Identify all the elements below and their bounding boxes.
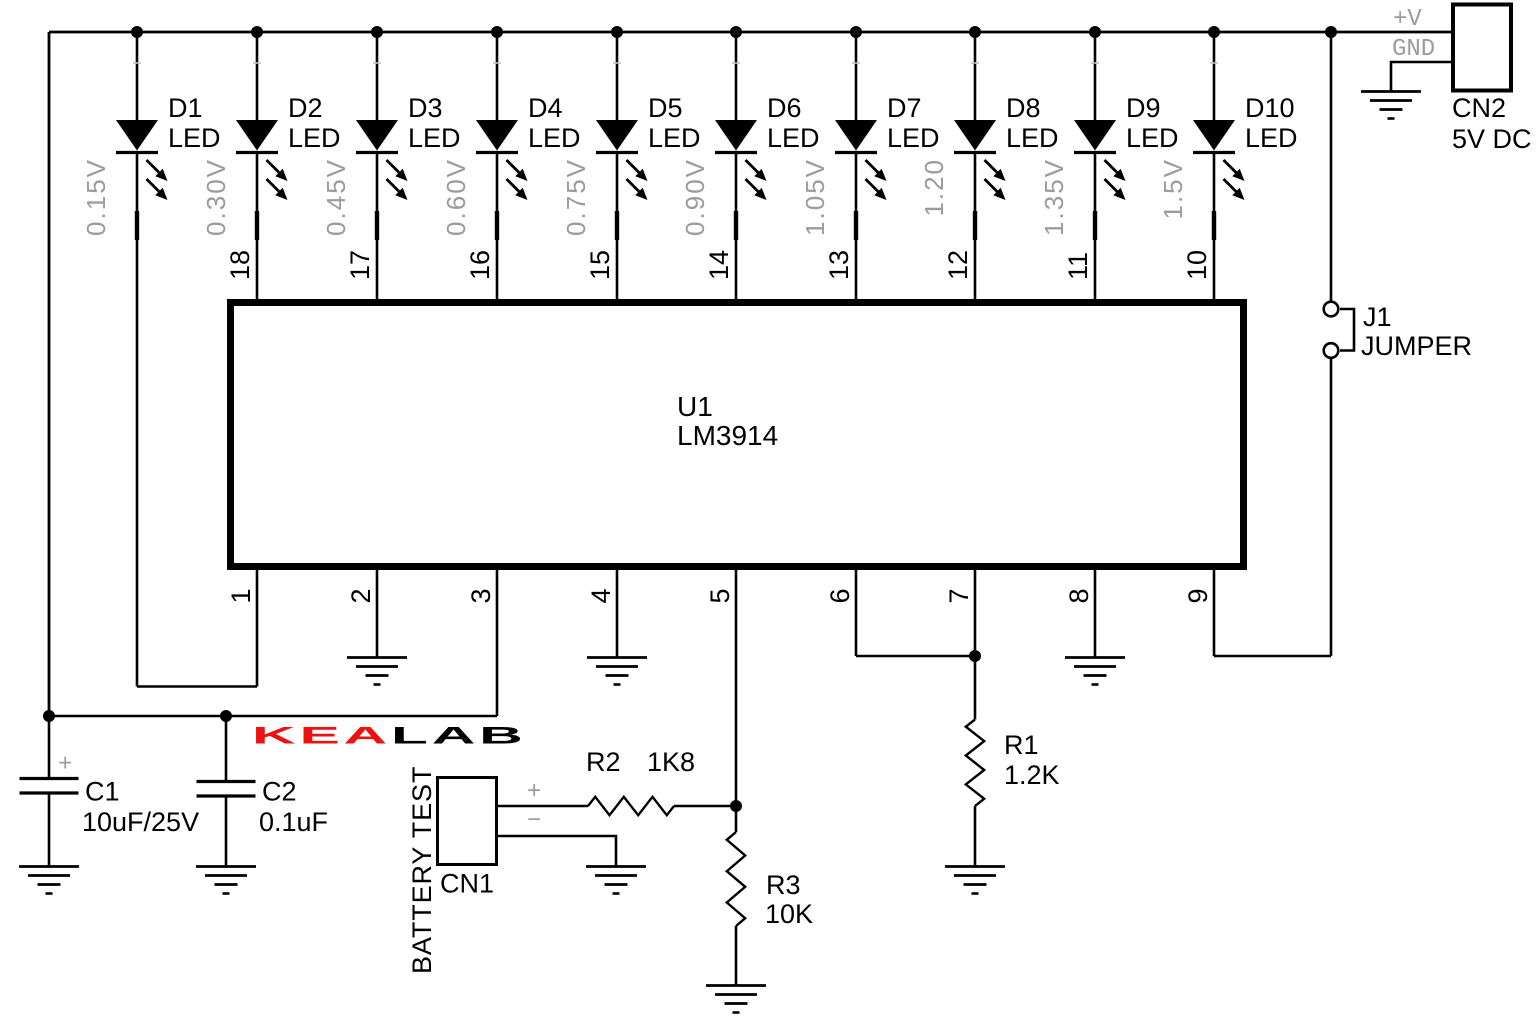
- wire cathode D3: [376, 153, 379, 300]
- LED D5: [596, 32, 701, 299]
- svg-text:3: 3: [466, 588, 496, 603]
- LED D4: [476, 32, 581, 299]
- svg-text:15: 15: [585, 250, 615, 280]
- wire C2 bottom lead: [225, 798, 228, 867]
- pin stub D3 cathode: [375, 211, 379, 240]
- svg-text:LED: LED: [648, 123, 701, 153]
- wire anode D3: [376, 32, 379, 121]
- node junction top rail LED D7 column: [850, 26, 862, 38]
- connector CN1 body: [438, 778, 497, 865]
- pin tick anode D9: [1091, 62, 1099, 64]
- svg-text:10K: 10K: [765, 899, 813, 929]
- cathode bar D7: [835, 151, 877, 154]
- svg-text:18: 18: [225, 250, 255, 280]
- svg-text:CN1: CN1: [440, 869, 494, 899]
- svg-text:C2: C2: [262, 777, 297, 807]
- svg-text:LED: LED: [887, 123, 940, 153]
- wire pin 7 down to R1: [974, 570, 977, 720]
- svg-text:11: 11: [1063, 252, 1093, 280]
- wire cathode D10: [1213, 153, 1216, 300]
- node junction R2/R3/pin5: [730, 800, 742, 812]
- node junction top rail LED D3 column: [371, 26, 383, 38]
- ground C2: [196, 865, 256, 868]
- resistor R2: [588, 797, 674, 815]
- svg-text:D10: D10: [1245, 93, 1295, 123]
- node junction top rail J1 column: [1325, 26, 1337, 38]
- svg-text:LED: LED: [1126, 123, 1179, 153]
- pin stub D1 cathode: [135, 211, 139, 240]
- svg-text:LED: LED: [767, 123, 820, 153]
- diode triangle D2: [236, 120, 278, 151]
- svg-text:D6: D6: [767, 93, 802, 123]
- diode triangle D5: [596, 120, 638, 151]
- wire anode D4: [496, 32, 499, 121]
- C2 top plate: [197, 780, 256, 783]
- wire J1 bottom lead: [1330, 358, 1333, 656]
- node junction top rail LED D1 column: [131, 26, 143, 38]
- pin tick anode D6: [732, 62, 740, 64]
- LED light arrows D5: [627, 160, 641, 174]
- wire +V bottom rail to pin 3: [49, 715, 497, 718]
- cathode bar D10: [1193, 151, 1235, 154]
- svg-text:0.15V: 0.15V: [81, 158, 111, 236]
- wire cathode D9: [1094, 153, 1097, 300]
- wire C2 top lead: [225, 716, 228, 780]
- svg-text:1K8: 1K8: [647, 747, 695, 777]
- svg-text:17: 17: [345, 250, 375, 280]
- LED light arrows D8: [985, 160, 999, 174]
- svg-text:0.75V: 0.75V: [561, 158, 591, 236]
- svg-text:13: 13: [824, 250, 854, 280]
- ground pin 8: [1065, 656, 1125, 659]
- svg-text:C1: C1: [85, 777, 120, 807]
- wire +V left vertical drop: [48, 32, 51, 716]
- LED D10: [1193, 32, 1298, 299]
- svg-text:+: +: [527, 779, 541, 806]
- svg-text:16: 16: [465, 250, 495, 280]
- diode triangle D3: [356, 120, 398, 151]
- pin stub D5 cathode: [615, 211, 619, 240]
- ground CN1 minus: [586, 865, 646, 868]
- LED D6: [715, 32, 820, 299]
- diode triangle D10: [1193, 120, 1235, 151]
- wire CN2 GND pin: [1391, 62, 1451, 92]
- pin tick anode D1: [133, 62, 141, 64]
- wire CN1 plus to R2: [498, 805, 588, 808]
- cathode bar D9: [1074, 151, 1116, 154]
- resistor R1: [966, 720, 984, 807]
- svg-text:−: −: [527, 808, 541, 835]
- wire cathode D6: [735, 153, 738, 300]
- cathode bar D1: [116, 151, 158, 154]
- svg-text:GND: GND: [1392, 36, 1435, 63]
- wire cathode D2: [256, 153, 259, 300]
- cathode bar D4: [476, 151, 518, 154]
- wire pin 2 down: [376, 570, 379, 658]
- wire pin 6 down: [855, 570, 858, 656]
- svg-text:D8: D8: [1006, 93, 1041, 123]
- pin tick anode D10: [1210, 62, 1218, 64]
- svg-text:1.35V: 1.35V: [1039, 158, 1069, 236]
- C2 bottom plate: [197, 794, 256, 797]
- svg-text:D7: D7: [887, 93, 922, 123]
- wire anode D2: [256, 32, 259, 121]
- svg-text:LED: LED: [408, 123, 461, 153]
- cathode bar D5: [596, 151, 638, 154]
- pin stub D4 cathode: [495, 211, 499, 240]
- wire C1 top lead: [48, 716, 51, 777]
- cathode bar D6: [715, 151, 757, 154]
- svg-text:KEALAB: KEALAB: [252, 722, 527, 749]
- wire cathode D8: [974, 153, 977, 300]
- LED light arrows D9: [1105, 160, 1119, 174]
- svg-text:D1: D1: [168, 93, 203, 123]
- ground pin 2: [347, 656, 407, 659]
- svg-text:0.30V: 0.30V: [201, 158, 231, 236]
- wire R2 to pin 5 node: [674, 805, 736, 808]
- svg-text:5V DC: 5V DC: [1452, 124, 1532, 154]
- svg-text:6: 6: [825, 588, 855, 603]
- LED light arrows D1: [147, 160, 161, 174]
- wire cathode D7: [855, 153, 858, 300]
- cathode bar D8: [954, 151, 996, 154]
- svg-text:5: 5: [705, 588, 735, 603]
- wire pin 6 to pin 7: [856, 655, 975, 658]
- svg-text:10uF/25V: 10uF/25V: [82, 807, 199, 837]
- pin tick anode D2: [253, 62, 261, 64]
- LED light arrows D7: [866, 160, 880, 174]
- diode triangle D1: [116, 120, 158, 151]
- svg-text:1.2K: 1.2K: [1004, 760, 1060, 790]
- svg-text:12: 12: [943, 250, 973, 280]
- svg-text:1.20: 1.20: [919, 158, 949, 217]
- pin tick anode D4: [493, 62, 501, 64]
- wire pin 9 down: [1213, 570, 1216, 656]
- wire cathode D1: [136, 153, 139, 687]
- svg-text:1: 1: [226, 588, 256, 603]
- svg-text:LED: LED: [1006, 123, 1059, 153]
- J1 bracket: [1340, 309, 1354, 351]
- wire anode D1: [136, 32, 139, 121]
- wire +V top rail: [49, 31, 1451, 34]
- svg-text:+V: +V: [1393, 6, 1422, 33]
- svg-text:J1: J1: [1363, 302, 1392, 332]
- pin tick anode D3: [373, 62, 381, 64]
- ground pin 4: [587, 656, 647, 659]
- cathode bar D2: [236, 151, 278, 154]
- svg-text:R2: R2: [586, 747, 621, 777]
- svg-text:D4: D4: [528, 93, 563, 123]
- svg-text:D9: D9: [1126, 93, 1161, 123]
- wire R3 to ground: [735, 926, 738, 986]
- LED D9: [1074, 32, 1179, 299]
- wire pin 1 down: [256, 570, 259, 687]
- wire pin 9 to J1 column: [1214, 655, 1331, 658]
- LED D8: [954, 32, 1059, 299]
- J1 bottom pad: [1324, 343, 1339, 358]
- wire anode D7: [855, 32, 858, 121]
- svg-text:7: 7: [944, 588, 974, 603]
- wire CN1 minus: [498, 836, 616, 867]
- svg-text:U1: U1: [677, 391, 713, 422]
- pin tick anode D5: [613, 62, 621, 64]
- ground R1: [945, 865, 1005, 868]
- LED D7: [835, 32, 940, 299]
- svg-text:0.60V: 0.60V: [441, 158, 471, 236]
- LED light arrows D6: [746, 160, 760, 174]
- svg-text:JUMPER: JUMPER: [1361, 331, 1472, 361]
- wire anode D5: [616, 32, 619, 121]
- node junction top rail LED D4 column: [491, 26, 503, 38]
- diode triangle D9: [1074, 120, 1116, 151]
- svg-text:0.90V: 0.90V: [680, 158, 710, 236]
- pin stub D8 cathode: [973, 211, 977, 240]
- svg-text:10: 10: [1182, 250, 1212, 280]
- resistor R3: [727, 832, 745, 926]
- svg-text:R1: R1: [1004, 730, 1039, 760]
- wire pin5 node down to R3: [735, 806, 738, 832]
- pin tick anode D7: [852, 62, 860, 64]
- svg-text:1.5V: 1.5V: [1158, 158, 1188, 220]
- diode triangle D6: [715, 120, 757, 151]
- svg-text:LED: LED: [1245, 123, 1298, 153]
- ground C1: [19, 865, 79, 868]
- pin stub D9 cathode: [1093, 211, 1097, 240]
- svg-text:8: 8: [1064, 588, 1094, 603]
- J1 top pad: [1324, 302, 1339, 317]
- capacitor C2: [196, 716, 328, 894]
- svg-text:LM3914: LM3914: [677, 420, 778, 451]
- svg-text:9: 9: [1183, 588, 1213, 603]
- IC U1 LM3914 body: [231, 303, 1244, 567]
- wire pin 5 down to R2/R3 node: [735, 570, 738, 806]
- wire pin 3 down: [496, 570, 499, 716]
- LED light arrows D3: [387, 160, 401, 174]
- svg-text:1.05V: 1.05V: [800, 158, 830, 236]
- svg-text:14: 14: [704, 250, 734, 280]
- wire anode D6: [735, 32, 738, 121]
- diode triangle D7: [835, 120, 877, 151]
- wire J1 top lead from rail: [1330, 32, 1333, 302]
- wire cathode D5: [616, 153, 619, 300]
- svg-text:2: 2: [346, 588, 376, 603]
- wire anode D10: [1213, 32, 1216, 121]
- node junction top rail LED D9 column: [1089, 26, 1101, 38]
- jumper J1: [1324, 302, 1472, 361]
- pin stub D10 cathode: [1212, 211, 1216, 240]
- LED D3: [356, 32, 461, 299]
- wire pin 8 down: [1094, 570, 1097, 658]
- diode triangle D4: [476, 120, 518, 151]
- svg-text:CN2: CN2: [1452, 93, 1506, 123]
- C1 top plate: [20, 777, 79, 780]
- pin tick anode D8: [971, 62, 979, 64]
- node junction top rail LED D6 column: [730, 26, 742, 38]
- LED D1: [116, 32, 221, 687]
- diode triangle D8: [954, 120, 996, 151]
- wire C1 bottom lead: [48, 795, 51, 867]
- svg-text:R3: R3: [766, 870, 801, 900]
- ground R3: [706, 984, 766, 987]
- C1 bottom plate: [20, 791, 79, 794]
- pin stub D6 cathode: [734, 211, 738, 240]
- wire pin 1 to D1 cathode: [137, 685, 257, 688]
- node junction top rail LED D2 column: [251, 26, 263, 38]
- pin stub D7 cathode: [854, 211, 858, 240]
- wire cathode D4: [496, 153, 499, 300]
- ground CN2: [1361, 90, 1421, 93]
- svg-text:D3: D3: [408, 93, 443, 123]
- wire anode D8: [974, 32, 977, 121]
- wire anode D9: [1094, 32, 1097, 121]
- svg-text:LED: LED: [288, 123, 341, 153]
- svg-text:D2: D2: [288, 93, 323, 123]
- LED light arrows D4: [507, 160, 521, 174]
- LED D2: [236, 32, 341, 299]
- wire R1 to ground: [974, 806, 977, 867]
- svg-text:BATTERY TEST: BATTERY TEST: [407, 766, 437, 974]
- node junction left rail / C1: [43, 710, 55, 722]
- svg-text:LED: LED: [528, 123, 581, 153]
- LED light arrows D10: [1224, 160, 1238, 174]
- svg-text:0.1uF: 0.1uF: [259, 807, 328, 837]
- node junction pins 6-7: [969, 650, 981, 662]
- node junction top rail LED D8 column: [969, 26, 981, 38]
- wire pin 4 down: [616, 570, 619, 658]
- LED light arrows D2: [267, 160, 281, 174]
- svg-text:D5: D5: [648, 93, 683, 123]
- node junction top rail LED D5 column: [611, 26, 623, 38]
- pin stub D2 cathode: [255, 211, 259, 240]
- svg-text:4: 4: [586, 588, 616, 603]
- node junction top rail LED D10 column: [1208, 26, 1220, 38]
- node junction C2: [220, 710, 232, 722]
- cathode bar D3: [356, 151, 398, 154]
- svg-text:LED: LED: [168, 123, 221, 153]
- connector CN2 body: [1453, 5, 1511, 91]
- capacitor C1: [19, 716, 199, 894]
- svg-text:+: +: [58, 752, 72, 779]
- svg-text:0.45V: 0.45V: [321, 158, 351, 236]
